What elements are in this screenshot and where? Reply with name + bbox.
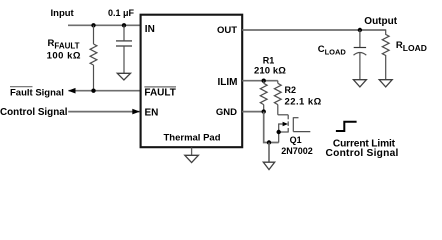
ground under IC thermal pad [191, 148, 193, 156]
channel bar (broken) [287, 115, 289, 120]
wire GND drop to ground [264, 112, 279, 143]
resistor RLOAD [382, 30, 389, 80]
svg-text:R1: R1 [263, 55, 275, 65]
node output/CLOAD junction [358, 28, 362, 32]
wire ILIM [242, 80, 278, 82]
svg-text:Fault Signal: Fault Signal [10, 88, 64, 99]
wire GND pin [242, 111, 264, 113]
svg-text:Output: Output [364, 16, 397, 27]
node fault/RFAULT junction [91, 89, 95, 93]
svg-text:EN: EN [145, 108, 159, 119]
resistor R2 [274, 81, 281, 115]
wire source lead [279, 131, 289, 133]
wire ground stem [268, 143, 270, 163]
svg-text:0.1 μF: 0.1 μF [108, 8, 135, 18]
pin FAULT label (overline) [144, 86, 176, 88]
capacitor CLOAD [354, 30, 367, 80]
ground under Q1 [263, 162, 274, 169]
ground under CLOAD [353, 80, 366, 87]
svg-text:22.1 kΩ: 22.1 kΩ [285, 96, 322, 107]
svg-text:100 kΩ: 100 kΩ [47, 50, 81, 61]
step waveform symbol [336, 122, 357, 131]
svg-text:ILIM: ILIM [218, 77, 238, 88]
node Q1 source junction [277, 130, 281, 134]
svg-text:210 kΩ: 210 kΩ [254, 65, 286, 76]
svg-text:R2: R2 [285, 85, 297, 95]
resistor R1 [260, 81, 267, 112]
svg-text:2N7002: 2N7002 [281, 146, 313, 156]
wire control signal [68, 111, 139, 113]
arrowhead Q1 body arrow [283, 122, 288, 126]
svg-text:Input: Input [51, 8, 75, 19]
svg-text:Q1: Q1 [290, 135, 302, 145]
svg-text:Control Signal: Control Signal [0, 107, 68, 118]
arrowhead fault signal (points left) [68, 88, 76, 94]
node GND/R1 junction [262, 109, 266, 113]
wire fault signal [69, 90, 141, 92]
transistor Q1 2N7002 [278, 115, 311, 143]
IC U1 body (load switch) [141, 15, 243, 148]
svg-text:Thermal Pad: Thermal Pad [163, 132, 220, 143]
wire source riser [279, 124, 284, 143]
wire gate lead [293, 131, 310, 133]
resistor RFAULT [90, 25, 97, 90]
capacitor C1 0.1uF [116, 25, 132, 73]
wire output rail [242, 29, 386, 31]
node ground stem junction [267, 140, 271, 144]
gate bar [292, 117, 294, 131]
gate tick [293, 117, 298, 119]
node ILIM/R1 junction [262, 79, 266, 83]
svg-text:Control Signal: Control Signal [326, 148, 399, 159]
ground under RLOAD [379, 80, 392, 87]
arrowhead control signal (points right into EN) [132, 109, 140, 115]
label Fault Signal (overline on Fault) [10, 86, 33, 88]
node input/C1 junction [122, 23, 126, 27]
ground under C1 [117, 73, 130, 80]
wire input rail [68, 24, 141, 26]
node input/R_FAULT junction [91, 23, 95, 27]
svg-text:FAULT: FAULT [144, 88, 175, 99]
wire drain lead [278, 114, 288, 116]
svg-text:GND: GND [216, 107, 237, 118]
svg-text:IN: IN [145, 24, 155, 35]
svg-text:OUT: OUT [217, 25, 237, 36]
